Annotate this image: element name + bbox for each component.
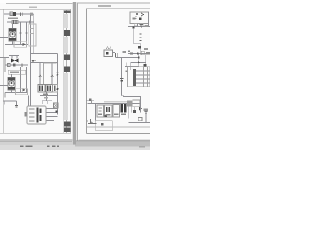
- component tap blob: [121, 80, 123, 82]
- wire right vert: [145, 109, 147, 123]
- bus line mid: [31, 53, 58, 55]
- wire route to lower cluster: [122, 96, 141, 104]
- wire vertical feeders: [30, 15, 32, 106]
- component box small: [141, 51, 144, 55]
- footer page number marks: [20, 146, 145, 148]
- component X1 on main vertical: [54, 103, 59, 108]
- resistor R1 marks: [12, 21, 18, 24]
- terminal strip TS1 frame: [128, 67, 150, 87]
- switch S3: [144, 111, 147, 113]
- parts table column left page: [64, 10, 67, 133]
- wire top cluster small verticals: [42, 101, 52, 105]
- title text right page top: [98, 5, 111, 7]
- wire relay outputs: [46, 108, 58, 110]
- wire M2 leads: [11, 74, 13, 93]
- junction dot B: [57, 88, 59, 90]
- wire left of transistor: [87, 120, 88, 122]
- label inside node box: [30, 28, 34, 29]
- TB1 dashes: [98, 107, 102, 111]
- terminal block TB3: [113, 105, 120, 118]
- capacitor C2: [31, 13, 33, 17]
- TS1 cross verticals: [144, 67, 148, 87]
- wire vert B: [138, 54, 140, 67]
- wire vert D: [145, 54, 147, 67]
- right page outer edge: [78, 3, 151, 141]
- ground G2: [140, 25, 143, 28]
- box feet: [134, 24, 137, 26]
- tick mark wire22: [29, 21, 31, 24]
- terminal block TB1: [97, 105, 104, 117]
- wire bottom light: [87, 126, 150, 128]
- wire vert C: [130, 63, 132, 71]
- label text small: [43, 94, 48, 96]
- enclosure box lower: [96, 121, 113, 131]
- wire top bus: [4, 13, 34, 15]
- diode D2: [15, 59, 19, 63]
- diode D5: [139, 107, 142, 111]
- wire long vertical: [121, 58, 123, 96]
- table entry rows (text): [64, 11, 71, 132]
- wire diode left lead: [0, 57, 9, 59]
- component tap on main vertical: [57, 74, 59, 76]
- wire motor1 bottom row: [5, 44, 28, 46]
- component Q2 blob: [138, 46, 141, 49]
- left page top edge: [6, 3, 73, 5]
- gray module: [127, 100, 132, 106]
- label text small2: [44, 97, 48, 99]
- wire M1 leads: [12, 24, 14, 45]
- wire U2 tick: [113, 52, 116, 54]
- value label: [13, 64, 16, 67]
- relay K2 box: [133, 100, 140, 107]
- wire right drop: [148, 12, 150, 27]
- wire diode top: [9, 55, 19, 57]
- wire branch verticals: [20, 22, 22, 45]
- component bottom small: [138, 117, 142, 120]
- right page inner frame: [87, 9, 150, 134]
- component box on wire92: [16, 89, 28, 95]
- wire motor2 bottom row: [5, 92, 28, 94]
- motor M1: [9, 29, 16, 42]
- TB2 bars: [106, 107, 108, 112]
- switch S1 dark block: [13, 12, 16, 16]
- fuse F2: [86, 99, 94, 101]
- dashed link: [135, 16, 137, 20]
- pin labels: [24, 112, 26, 117]
- wire L-route: [44, 63, 57, 84]
- junction dot F: [137, 53, 139, 55]
- left page paper: [0, 3, 73, 141]
- capacitor C3: [21, 63, 23, 67]
- component tap: [120, 77, 124, 79]
- pad P1: [101, 123, 103, 125]
- relay K1 coil bars: [36, 108, 38, 123]
- relay K1 box: [27, 106, 46, 124]
- relay K1 contacts: [29, 109, 35, 121]
- wire row B: [116, 57, 139, 59]
- label text row2: [8, 70, 26, 74]
- connector J2 block: [46, 85, 53, 93]
- transformer T1 secondary: [124, 104, 127, 113]
- junction dot E: [132, 26, 134, 28]
- transistor Q3: [88, 119, 97, 124]
- diode D3 arrow: [23, 43, 26, 46]
- wire row A: [128, 53, 150, 55]
- wire bottom bend: [134, 44, 141, 54]
- label NO2: [144, 48, 148, 50]
- diode D1: [11, 59, 15, 63]
- center gap band between pages: [73, 2, 76, 145]
- left page inner frame: [0, 9, 71, 133]
- wire drops to relay cluster: [39, 63, 41, 85]
- wire diode leads: [12, 56, 17, 59]
- label dd: [144, 109, 148, 111]
- ground G1: [15, 106, 18, 108]
- faint label band: [104, 101, 131, 103]
- pin marks TB row: [98, 114, 126, 116]
- bus line lower: [31, 62, 58, 64]
- junction tick: [32, 59, 37, 62]
- label NO1: [145, 25, 149, 27]
- junction dot C: [55, 110, 57, 112]
- sensor U2 top marks: [106, 47, 111, 49]
- wire vert C2: [126, 63, 128, 68]
- junction dot A: [32, 60, 34, 62]
- resistor R4 symbol: [51, 75, 53, 77]
- terminal strip TS1 bar: [133, 69, 136, 86]
- wire mid vertical: [95, 104, 97, 121]
- wire diode bottom row: [5, 64, 28, 66]
- label text row: [8, 18, 18, 19]
- connector J3 block: [53, 85, 58, 93]
- wire lower horizontal: [3, 100, 16, 102]
- resistor R3 symbol: [39, 75, 41, 77]
- component marks row A left: [123, 51, 127, 53]
- capacitor C4: [131, 52, 133, 55]
- label text b1: [133, 17, 136, 19]
- wire main vertical: [133, 28, 135, 44]
- right page paper: [76, 3, 150, 142]
- component block: [139, 18, 142, 21]
- capacitor C5 bars: [116, 53, 118, 58]
- vertical main right: [57, 54, 59, 115]
- wire box drop: [137, 24, 139, 27]
- wire row D: [125, 66, 139, 68]
- K2 comp marks: [133, 110, 136, 113]
- wire cluster link: [46, 93, 48, 102]
- switch S2 ticks: [140, 34, 142, 41]
- connector J1 block: [38, 85, 45, 93]
- assembly box B1: [130, 12, 149, 24]
- capacitor C1: [21, 13, 23, 17]
- junction dot G2: [138, 62, 140, 64]
- transistor Q1: [141, 13, 144, 16]
- diode D4 arrow: [23, 88, 26, 91]
- component X1 cross: [54, 103, 59, 108]
- wire stub2: [4, 93, 6, 98]
- transformer T1 primary: [121, 104, 124, 113]
- TB2 lower dot: [105, 115, 107, 117]
- junction dot D: [136, 13, 138, 15]
- node box outline: [29, 24, 36, 46]
- wire second row: [7, 21, 34, 23]
- wire lower bus: [88, 103, 142, 105]
- label text r: [146, 52, 150, 54]
- scanner background band bottom: [0, 142, 150, 151]
- tick marks T1: [20, 32, 28, 34]
- sensor U2 core: [106, 52, 109, 55]
- motor M2: [8, 78, 15, 91]
- wire bottom bus right: [129, 122, 150, 124]
- sensor U2 box: [104, 50, 113, 57]
- wire motor1 left lead: [0, 37, 8, 39]
- TS1 left marks: [125, 71, 127, 73]
- component marks row A left2: [128, 51, 130, 53]
- resistor R1 bars: [14, 20, 17, 24]
- junction dot G: [138, 57, 140, 59]
- wire row C: [131, 62, 146, 64]
- wire under box: [128, 26, 150, 28]
- component blob H: [144, 64, 147, 67]
- left page bottom edge: [0, 140, 73, 142]
- terminal block TB2: [105, 105, 113, 117]
- TS1 wire pins: [136, 71, 150, 83]
- annotation text top left page: [29, 7, 37, 8]
- diode D5 lead: [140, 104, 142, 113]
- resistor R2: [8, 64, 11, 67]
- K2 pins: [129, 107, 135, 119]
- component box on wire44: [14, 41, 27, 47]
- wire motor2 left lead: [0, 85, 8, 87]
- wire stub: [4, 58, 6, 73]
- fuse box F1: [10, 12, 13, 16]
